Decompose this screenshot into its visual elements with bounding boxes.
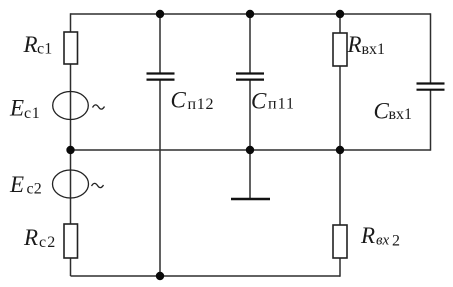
svg-text:2: 2: [34, 181, 42, 198]
label Rvx1: [347, 32, 386, 58]
wire bottom rail: [71, 275, 341, 277]
label Rc2: [23, 225, 55, 251]
svg-text:E: E: [9, 172, 24, 197]
svg-text:2: 2: [392, 233, 400, 250]
svg-text:п12: п12: [188, 96, 215, 113]
svg-text:вх1: вх1: [389, 106, 413, 123]
capacitor Cp12: [147, 74, 175, 80]
wire left column: [70, 13, 72, 276]
node bottom Cp12: [156, 272, 164, 280]
resistor Rvx1: [333, 33, 347, 66]
resistor Rc2: [64, 224, 78, 258]
svg-text:R: R: [23, 32, 38, 57]
resistor Rvx2: [333, 225, 347, 258]
ground: [231, 198, 270, 201]
wire column Cp12: [159, 14, 161, 73]
svg-text:с1: с1: [37, 41, 53, 58]
svg-text:C: C: [251, 89, 267, 114]
node mid Rvx: [336, 146, 344, 154]
resistor Rc1: [64, 32, 78, 64]
capacitor Cvx1: [417, 84, 445, 90]
svg-text:с1: с1: [24, 105, 41, 122]
wire middle rail: [71, 149, 431, 151]
svg-text:R: R: [360, 223, 375, 248]
node mid left: [66, 146, 74, 154]
svg-text:C: C: [171, 88, 187, 113]
svg-text:вх1: вх1: [362, 41, 386, 58]
source Ec1: [53, 92, 105, 120]
wire top rail: [71, 13, 431, 15]
svg-text:п11: п11: [268, 96, 295, 113]
capacitor Cp11: [236, 74, 264, 80]
node top Rvx1: [336, 10, 344, 18]
svg-text:2: 2: [47, 234, 55, 251]
wire right column: [430, 13, 432, 83]
label Rvx2: [360, 223, 400, 250]
svg-text:R: R: [23, 225, 38, 250]
node top Cp12: [156, 10, 164, 18]
wire column Rvx: [339, 14, 341, 277]
label Cp12: [171, 88, 215, 114]
source Ec2: [53, 170, 104, 198]
svg-text:с: с: [39, 234, 46, 251]
label Ec1: [9, 96, 41, 123]
label Ec2: [9, 172, 42, 198]
svg-text:с: с: [27, 181, 34, 198]
node top Cp11: [246, 10, 254, 18]
svg-text:C: C: [374, 99, 390, 124]
svg-text:E: E: [9, 96, 24, 121]
svg-text:вх: вх: [376, 233, 390, 249]
wire column Cp11: [249, 14, 251, 73]
label Rc1: [23, 32, 53, 58]
label Cp11: [251, 89, 295, 114]
node mid Cp11: [246, 146, 254, 154]
svg-text:R: R: [347, 32, 362, 57]
label Cvx1: [374, 99, 413, 124]
